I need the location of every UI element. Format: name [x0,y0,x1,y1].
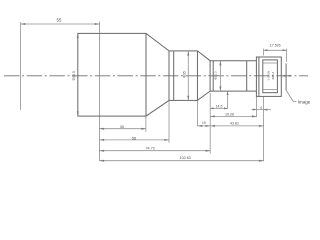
dimension diameter 63.5 on barrel edge [72,33,79,116]
dimension 74.72 [99,146,210,151]
svg-text:Φ25.4: Φ25.4 [271,72,275,80]
svg-text:1-32UN: 1-32UN [266,71,270,81]
extension line x197 [197,101,199,127]
extension line x263 [263,97,265,161]
barrel large cylinder [78,33,146,116]
svg-text:Φ35: Φ35 [183,71,187,78]
cone taper 2 [197,51,210,101]
svg-text:43.81: 43.81 [230,122,239,126]
dimension 55 [21,18,100,25]
svg-text:74.72: 74.72 [145,146,155,150]
extension line x257 [256,97,258,117]
leader Image [286,91,311,105]
back focal arrows [281,75,290,77]
svg-text:56: 56 [132,135,136,140]
svg-text:Φ21.3: Φ21.3 [214,71,218,80]
svg-text:Image: Image [298,99,311,104]
dimension 17.526 [264,44,287,62]
dimension 4 [252,106,272,111]
svg-text:14.5: 14.5 [216,104,223,108]
dimension 56 [99,101,169,143]
dimension diameter 21.3 [214,61,222,91]
dimension diameter 35.3 [183,51,190,101]
svg-text:4: 4 [260,106,262,110]
extension line x210 [209,93,211,154]
mount body [256,57,281,96]
dimension 30 [99,117,145,132]
cylinder 3 and ring [210,61,256,91]
left reference extension line [20,22,22,110]
svg-text:102.63: 102.63 [180,156,191,160]
svg-text:Φ63.5: Φ63.5 [72,71,76,80]
dimension 10.26 [210,113,256,118]
cylinder 2 [169,51,197,101]
cone taper front [146,33,169,116]
svg-text:17.526: 17.526 [270,44,281,48]
svg-text:30: 30 [120,125,124,129]
svg-text:10: 10 [202,121,206,125]
svg-text:55: 55 [57,18,62,23]
dimension chain 10 and 43.81 [198,121,264,127]
svg-text:10.26: 10.26 [225,113,234,117]
image plane [285,63,287,90]
centerline [4,75,308,77]
dimension 102.63 [99,156,263,162]
main vertical extension line [98,22,100,161]
dimension 14.5 [210,91,229,109]
